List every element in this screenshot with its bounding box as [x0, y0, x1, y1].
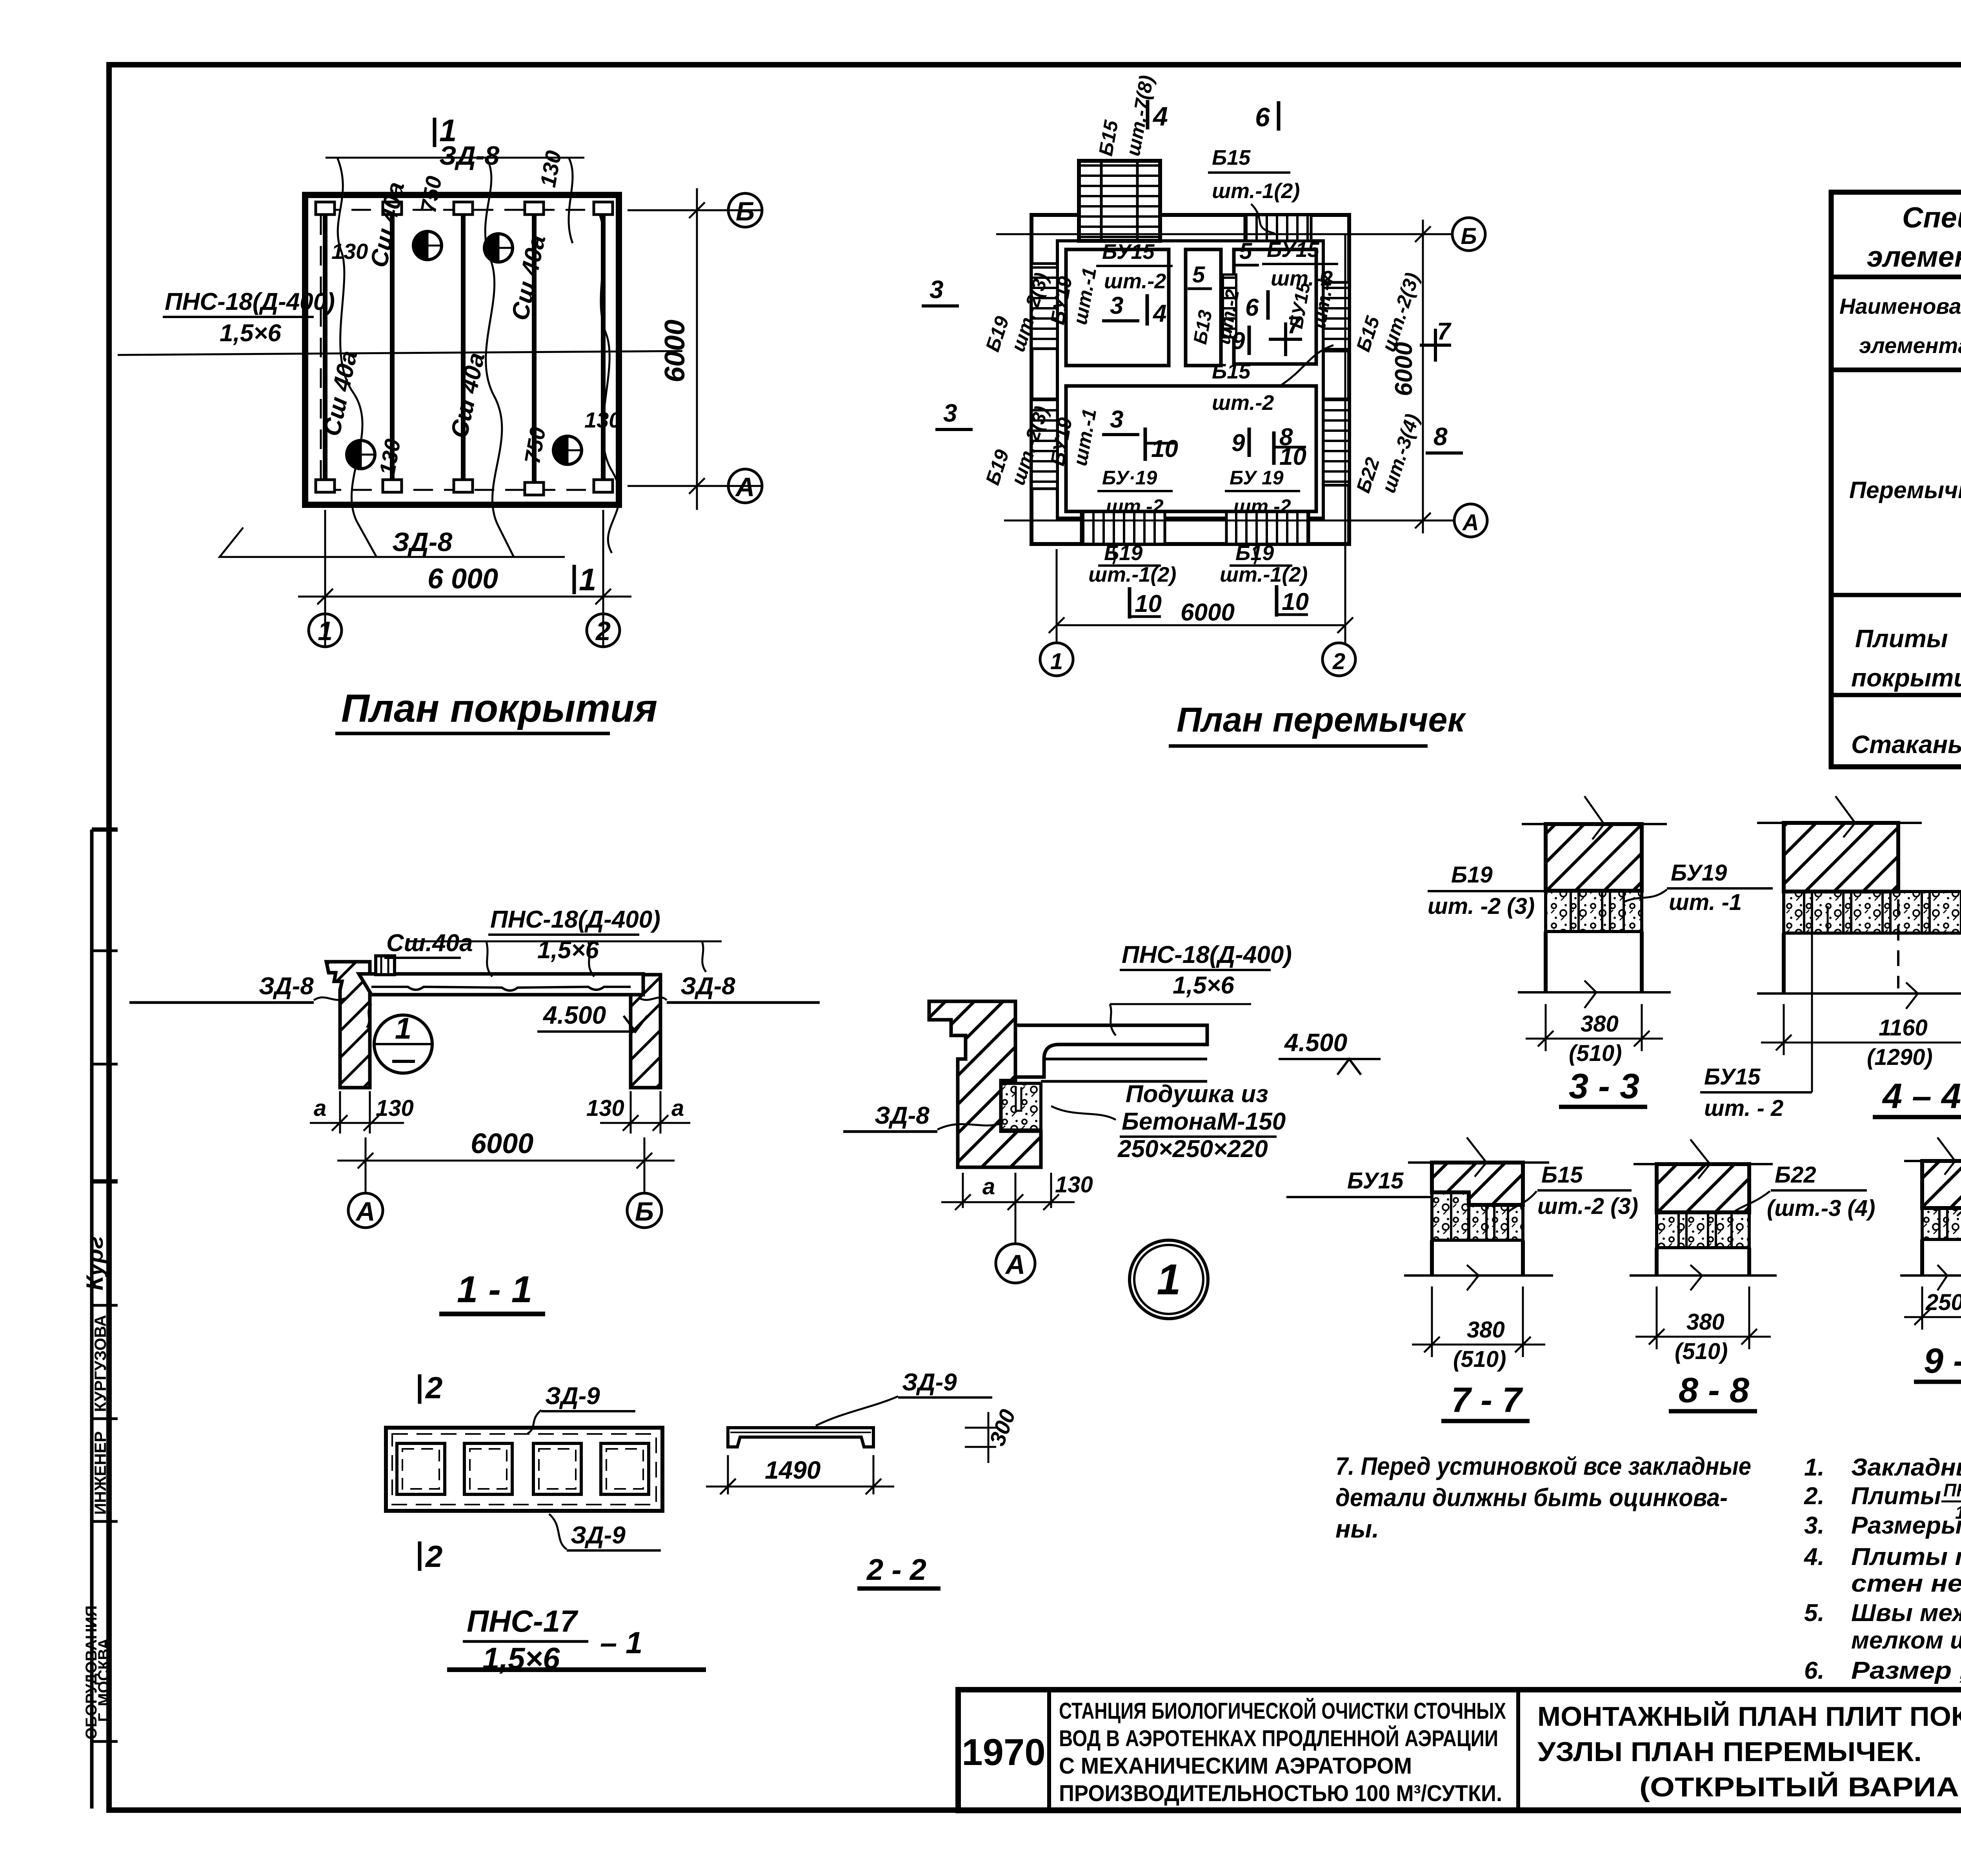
- grid bubble A: [996, 1244, 1035, 1283]
- svg-text:1,5×6: 1,5×6: [1173, 972, 1234, 999]
- svg-text:1970: 1970: [962, 1731, 1046, 1773]
- svg-text:ПНС-18(Д-400): ПНС-18(Д-400): [1122, 941, 1292, 968]
- bottom dimension 6000: [298, 510, 631, 647]
- svg-text:покрытия: покрытия: [1851, 664, 1961, 692]
- svg-text:Б: Б: [736, 197, 755, 226]
- grid bubbles B and A: [728, 193, 762, 227]
- svg-text:3: 3: [930, 275, 944, 304]
- svg-text:Подушка из: Подушка из: [1126, 1081, 1268, 1108]
- left wall with cornice: [326, 962, 370, 1088]
- right dimension 6000: [628, 188, 761, 510]
- Csh 40a labels: [318, 180, 551, 440]
- svg-text:шт. - 2: шт. - 2: [1704, 1095, 1783, 1121]
- lintel band top right wall: [1245, 215, 1311, 241]
- svg-text:БУ·19: БУ·19: [1102, 467, 1157, 489]
- svg-text:УЗЛЫ ПЛАН ПЕРЕМЫЧЕК.: УЗЛЫ ПЛАН ПЕРЕМЫЧЕК.: [1537, 1736, 1922, 1767]
- grid bubbles 1 and 2 bottom: [1040, 643, 1073, 676]
- svg-text:шт.-2: шт.-2: [1106, 495, 1164, 517]
- svg-text:Спецификация сборных железоб: Спецификация сборных железобетонных: [1902, 201, 1961, 234]
- holes: [397, 1443, 649, 1494]
- lintel band left wall upper: [1031, 264, 1057, 349]
- svg-text:ИНЖЕНЕР: ИНЖЕНЕР: [91, 1431, 109, 1515]
- svg-text:5.: 5.: [1804, 1599, 1825, 1627]
- svg-text:6: 6: [1255, 102, 1270, 132]
- chimney protrusion with lintel hatch: [1079, 161, 1160, 241]
- svg-text:БУ15: БУ15: [1267, 238, 1319, 262]
- lintel band right wall lower: [1323, 399, 1349, 485]
- svg-text:1.: 1.: [1804, 1454, 1825, 1481]
- svg-text:1 - 1: 1 - 1: [457, 1268, 532, 1310]
- svg-text:6000: 6000: [471, 1128, 533, 1159]
- svg-text:5: 5: [1239, 238, 1252, 264]
- svg-text:(1290): (1290): [1867, 1044, 1933, 1070]
- svg-text:ЗД-9: ЗД-9: [902, 1369, 957, 1396]
- slab ribs profile: [371, 987, 631, 991]
- svg-text:250: 250: [1925, 1290, 1961, 1315]
- svg-text:Закладные детали ЗД-8 и ЗД-9 н: Закладные детали ЗД-8 и ЗД-9 на листе АС…: [1851, 1454, 1961, 1481]
- svg-text:ВОД В АЭРОТЕНКАХ ПРОДЛЕННОЙ АЭ: ВОД В АЭРОТЕНКАХ ПРОДЛЕННОЙ АЭРАЦИИ: [1059, 1726, 1498, 1751]
- 1490 dim below: [706, 1455, 894, 1494]
- right section marks 7 and 8: [1420, 344, 1451, 347]
- leader curves from labels to slab: [408, 941, 722, 977]
- lintel band bottom wall right: [1226, 510, 1309, 544]
- inner wall contour: [1057, 241, 1323, 518]
- svg-text:Б19: Б19: [1451, 862, 1493, 888]
- svg-text:Кург: Кург: [82, 1236, 108, 1290]
- section 1-1: [129, 906, 820, 1314]
- 10 section marks bottom: [1128, 587, 1131, 619]
- svg-text:Б: Б: [635, 1197, 654, 1226]
- svg-text:5: 5: [1192, 262, 1205, 287]
- svg-text:ЗД-9: ЗД-9: [545, 1383, 600, 1410]
- svg-text:6.: 6.: [1804, 1657, 1825, 1684]
- bottom dims: [310, 1091, 690, 1134]
- svg-text:1160: 1160: [1879, 1015, 1928, 1041]
- svg-text:шт.-1(2): шт.-1(2): [1088, 563, 1176, 586]
- svg-text:4: 4: [1152, 102, 1168, 131]
- svg-text:элемента: элемента: [1859, 333, 1961, 358]
- svg-text:а: а: [671, 1095, 684, 1121]
- svg-text:ПНС-18(Д-400): ПНС-18(Д-400): [490, 906, 660, 933]
- svg-text:ЗД-8: ЗД-8: [392, 527, 452, 557]
- svg-text:шт.-2: шт.-2: [1233, 495, 1291, 517]
- svg-text:8: 8: [1433, 422, 1448, 451]
- svg-text:2: 2: [595, 616, 611, 646]
- svg-text:– 1: – 1: [600, 1625, 642, 1660]
- svg-text:6000: 6000: [1181, 599, 1235, 626]
- svg-text:Б15: Б15: [1212, 360, 1251, 383]
- svg-text:А: А: [1462, 510, 1479, 535]
- svg-text:ПНС-17: ПНС-17: [467, 1604, 578, 1638]
- svg-text:1: 1: [1050, 649, 1063, 674]
- section 9-9: [1900, 1137, 1961, 1382]
- embedded plate marks top: [316, 202, 613, 215]
- svg-text:130: 130: [331, 239, 368, 264]
- svg-text:БУ 19: БУ 19: [1230, 467, 1284, 489]
- svg-text:План покрытия: План покрытия: [341, 686, 657, 730]
- svg-text:А: А: [735, 472, 755, 502]
- svg-text:(510): (510): [1453, 1346, 1506, 1372]
- svg-text:стен не менее, чем в 3⁺точках.: стен не менее, чем в 3⁺точках. Шов h=6мм…: [1851, 1570, 1961, 1597]
- svg-text:шт.-2: шт.-2: [1212, 391, 1274, 415]
- svg-text:СТАНЦИЯ БИОЛОГИЧЕСКОЙ ОЧИСТКИ: СТАНЦИЯ БИОЛОГИЧЕСКОЙ ОЧИСТКИ СТОЧНЫХ: [1059, 1698, 1506, 1724]
- svg-text:Плиты: Плиты: [1851, 1483, 1941, 1510]
- svg-text:(шт.-3 (4): (шт.-3 (4): [1767, 1195, 1875, 1221]
- svg-text:БУ15: БУ15: [1704, 1064, 1761, 1090]
- svg-text:6000: 6000: [1390, 342, 1417, 396]
- small lintel between rooms 2-3: [1223, 275, 1236, 337]
- svg-text:10: 10: [1151, 435, 1178, 462]
- title block sheet name: [1537, 1701, 1961, 1802]
- svg-text:Б19: Б19: [1104, 541, 1142, 565]
- spec table body text: [1849, 381, 1961, 766]
- svg-text:Стаканы: Стаканы: [1851, 730, 1961, 759]
- right dimension 6000: [1415, 220, 1431, 533]
- svg-text:130: 130: [1055, 1172, 1093, 1197]
- section divider lines: [1831, 593, 1961, 597]
- svg-text:шт. -2 (3): шт. -2 (3): [1428, 893, 1535, 919]
- svg-text:Сш.40а: Сш.40а: [386, 930, 473, 957]
- bottom dim: [941, 1173, 1075, 1243]
- svg-text:380: 380: [1467, 1317, 1505, 1343]
- grid bubble A right: [1454, 504, 1487, 537]
- section mark 1 bottom: [573, 565, 576, 594]
- svg-text:шт.-2: шт.-2: [1104, 269, 1166, 293]
- node detail 1: [843, 941, 1381, 1319]
- roof upstand: [376, 956, 395, 975]
- svg-text:3.: 3.: [1804, 1512, 1825, 1539]
- svg-text:Б22: Б22: [1775, 1162, 1816, 1188]
- section 8-8: [1630, 1139, 1875, 1411]
- svg-text:130: 130: [376, 1095, 414, 1121]
- svg-text:Б15: Б15: [1541, 1162, 1583, 1188]
- svg-text:шт.-2 (3): шт.-2 (3): [1537, 1194, 1638, 1219]
- svg-text:1: 1: [1157, 1256, 1181, 1304]
- svg-text:КУРГУЗОВА: КУРГУЗОВА: [91, 1315, 109, 1412]
- svg-text:элементов замаркированных на д: элементов замаркированных на данном лист…: [1867, 240, 1961, 273]
- section mark 4 top: [1146, 100, 1150, 129]
- slab joint lines: [325, 208, 603, 490]
- interior room 2 outline: [1186, 249, 1221, 366]
- roof plan (Plan pokrytiya): [118, 113, 762, 733]
- svg-text:Размер „а" см. таблицу на лист: Размер „а" см. таблицу на листе АС-3: [1851, 1657, 1961, 1684]
- svg-text:шт.-1(2): шт.-1(2): [1220, 563, 1308, 586]
- svg-text:380: 380: [1686, 1309, 1725, 1335]
- svg-text:4.: 4.: [1803, 1543, 1825, 1570]
- right wall: [631, 975, 660, 1088]
- svg-text:Б: Б: [1461, 224, 1477, 249]
- section mark 1 top: [433, 118, 437, 147]
- svg-text:БУ15: БУ15: [1347, 1168, 1404, 1194]
- svg-text:ЗД-9: ЗД-9: [571, 1522, 626, 1549]
- svg-text:БетонаМ-150: БетонаМ-150: [1122, 1108, 1286, 1135]
- svg-text:1490: 1490: [765, 1456, 820, 1484]
- svg-text:детали дилжны быть оцинкова: детали дилжны быть оцинкова-: [1335, 1483, 1728, 1512]
- grid bubbles A and B: [348, 1193, 383, 1228]
- svg-text:1: 1: [318, 616, 333, 646]
- svg-text:2: 2: [425, 1539, 442, 1574]
- svg-text:мелком щебне.: мелком щебне.: [1851, 1627, 1961, 1654]
- interior room 1 outline: [1066, 249, 1169, 366]
- svg-text:7: 7: [1287, 312, 1302, 339]
- big node circle 1: [1130, 1240, 1208, 1319]
- lintel plan (Plan peremychek): [922, 74, 1487, 746]
- ZD-8 top dimension line and wavy leaders: [220, 158, 620, 557]
- svg-text:2 - 2: 2 - 2: [866, 1553, 926, 1587]
- svg-text:4.500: 4.500: [1284, 1028, 1347, 1057]
- svg-text:ПНС-18(Д-400): ПНС-18(Д-400): [165, 288, 335, 315]
- svg-text:7. Перед устиновкой все закл: 7. Перед устиновкой все закладные: [1335, 1452, 1751, 1480]
- section mark 6 top: [1277, 101, 1281, 131]
- svg-text:1,5×6: 1,5×6: [220, 320, 281, 347]
- svg-text:Г. МОСКВА: Г. МОСКВА: [95, 1638, 113, 1722]
- svg-text:а: а: [982, 1174, 995, 1199]
- svg-text:6000: 6000: [659, 320, 691, 382]
- svg-text:2.: 2.: [1804, 1483, 1825, 1510]
- svg-text:БУ15: БУ15: [1102, 240, 1155, 264]
- svg-text:Наименование: Наименование: [1839, 294, 1961, 318]
- svg-text:4.500: 4.500: [542, 1001, 606, 1029]
- section 2-2 channel: [706, 1369, 1020, 1589]
- svg-text:8 - 8: 8 - 8: [1679, 1371, 1749, 1410]
- title block: [958, 1690, 1961, 1810]
- grid bubble B right: [1452, 218, 1485, 251]
- svg-text:6: 6: [1245, 294, 1259, 321]
- svg-text:2: 2: [1332, 649, 1345, 674]
- svg-text:ЗД-8: ЗД-8: [680, 973, 735, 1000]
- roof slab: [359, 974, 643, 995]
- svg-text:Швы между плитами заделать бет: Швы между плитами заделать бетоном М-200…: [1851, 1599, 1961, 1627]
- grid bubbles 1 and 2: [309, 614, 342, 647]
- svg-text:А: А: [1005, 1249, 1026, 1280]
- svg-text:3: 3: [1110, 406, 1123, 433]
- cornice wall hatched: [929, 1001, 1041, 1167]
- svg-text:(510): (510): [1675, 1339, 1728, 1364]
- svg-text:А: А: [355, 1197, 375, 1226]
- specification table: [1831, 192, 1961, 767]
- lintel band right wall upper: [1323, 282, 1349, 351]
- svg-text:а: а: [314, 1095, 326, 1121]
- svg-text:4: 4: [1152, 300, 1166, 327]
- spec table title: [1867, 201, 1961, 273]
- outer wall contour: [1031, 215, 1349, 544]
- svg-text:ЗД-8: ЗД-8: [259, 973, 314, 1000]
- svg-text:БУ19: БУ19: [1671, 860, 1727, 886]
- node 1 bubble: [374, 1015, 432, 1073]
- mounting holes (Csh 40a) with half shading: [347, 231, 582, 469]
- svg-text:9 - 9: 9 - 9: [1924, 1341, 1961, 1381]
- zinc note text: [1335, 1452, 1751, 1543]
- section mark 6 in room3: [1266, 290, 1270, 320]
- svg-text:Б15: Б15: [1212, 146, 1251, 169]
- svg-text:1: 1: [395, 1012, 411, 1045]
- section 3-3: [1428, 796, 1773, 1107]
- svg-text:шт.-1(2): шт.-1(2): [1212, 179, 1300, 203]
- svg-text:130: 130: [586, 1095, 624, 1121]
- svg-text:1: 1: [439, 113, 457, 148]
- inner dashed outline: [321, 210, 604, 490]
- embedded plate marks bottom: [316, 480, 613, 495]
- svg-text:1: 1: [579, 562, 597, 597]
- svg-text:6 000: 6 000: [427, 563, 498, 595]
- svg-text:Перемычки: Перемычки: [1849, 477, 1961, 503]
- svg-text:10: 10: [1135, 590, 1162, 617]
- svg-text:ны.: ны.: [1335, 1515, 1379, 1543]
- left stamp column: [92, 830, 118, 1809]
- svg-text:7: 7: [1437, 318, 1452, 345]
- svg-text:шт. -1: шт. -1: [1669, 890, 1742, 915]
- svg-text:(ОТКРЫТЫЙ ВАРИАНТ): (ОТКРЫТЫЙ ВАРИАНТ): [1639, 1771, 1961, 1802]
- plan square: [305, 195, 619, 505]
- svg-text:2: 2: [425, 1370, 442, 1405]
- interior big room outline: [1066, 386, 1316, 511]
- svg-text:380: 380: [1581, 1011, 1619, 1037]
- PNS-17 slab plan: [386, 1370, 706, 1676]
- svg-text:4 – 4: 4 – 4: [1882, 1077, 1961, 1116]
- lintel band left wall lower: [1031, 399, 1057, 489]
- primechaniya notes: [1803, 1454, 1961, 1684]
- svg-text:План перемычек: План перемычек: [1177, 700, 1466, 739]
- concrete pad: [1001, 1083, 1041, 1130]
- svg-text:9: 9: [1232, 429, 1245, 457]
- svg-text:130: 130: [584, 408, 621, 432]
- roof slab resting: [1015, 1025, 1207, 1077]
- svg-text:ЗД-8: ЗД-8: [875, 1102, 930, 1129]
- svg-text:250×250×220: 250×250×220: [1117, 1135, 1268, 1163]
- svg-text:Размеры в скобках даны для сте: Размеры в скобках даны для стен толщиной…: [1851, 1512, 1961, 1539]
- 300 dim right: [965, 1412, 996, 1463]
- svg-text:(510): (510): [1569, 1041, 1622, 1066]
- spec table headers: [1839, 287, 1961, 370]
- span dimension 6000: [337, 1137, 675, 1194]
- svg-text:3: 3: [1110, 292, 1123, 319]
- 130 dims: [331, 149, 621, 477]
- title block project name: [1059, 1698, 1506, 1806]
- section 4-4: [1700, 796, 1961, 1121]
- svg-text:С МЕХАНИЧЕСКИМ АЭРАТОРОМ: С МЕХАНИЧЕСКИМ АЭРАТОРОМ: [1059, 1753, 1412, 1779]
- svg-text:ПНС-17: ПНС-17: [1943, 1480, 1961, 1500]
- interior room 3 outline: [1234, 249, 1316, 364]
- svg-text:7 - 7: 7 - 7: [1451, 1381, 1523, 1420]
- section 2 marks: [418, 1374, 422, 1404]
- svg-text:ПРОИЗВОДИТЕЛЬНОСТЬЮ 100 М³/СУТ: ПРОИЗВОДИТЕЛЬНОСТЬЮ 100 М³/СУТКИ.: [1059, 1781, 1502, 1806]
- svg-text:10: 10: [1282, 588, 1309, 615]
- svg-text:Плиты: Плиты: [1855, 624, 1948, 653]
- svg-text:3: 3: [943, 399, 957, 427]
- lintel band bottom wall left: [1081, 510, 1165, 544]
- svg-text:МОНТАЖНЫЙ ПЛАН ПЛИТ ПОКРЫТИЯ.: МОНТАЖНЫЙ ПЛАН ПЛИТ ПОКРЫТИЯ.: [1537, 1701, 1961, 1732]
- svg-text:Плиты покрытия приварить к зак: Плиты покрытия приварить к закладным дет…: [1851, 1543, 1961, 1570]
- bottom dimension 6000: [1049, 617, 1353, 633]
- section 7-7: [1286, 1137, 1638, 1421]
- svg-text:3 - 3: 3 - 3: [1569, 1067, 1639, 1106]
- axis lines to grid bubbles: [996, 234, 1454, 643]
- svg-text:9: 9: [1232, 328, 1245, 355]
